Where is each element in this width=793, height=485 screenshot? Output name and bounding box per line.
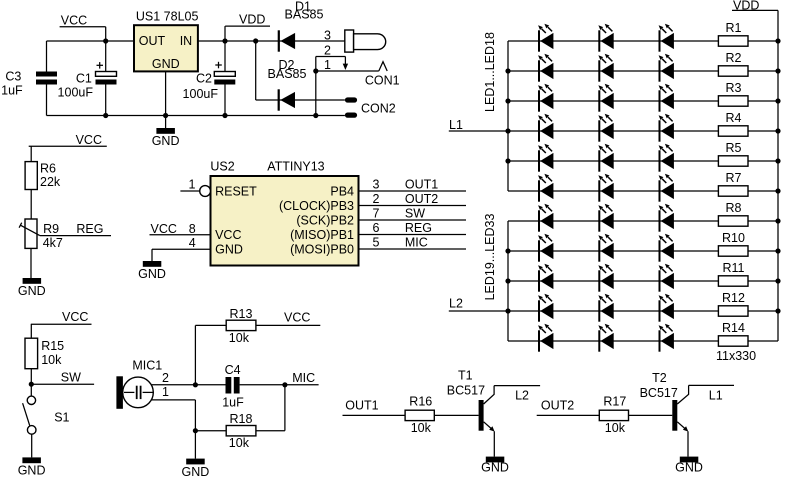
- svg-text:LED19...LED33: LED19...LED33: [483, 214, 497, 301]
- regulator US1 78L05: [134, 10, 198, 72]
- junction: [505, 308, 510, 313]
- svg-text:1: 1: [189, 178, 196, 192]
- capacitor C2 100uF: [183, 41, 236, 116]
- wire: [165, 71, 167, 115]
- resistor R1: [718, 21, 748, 46]
- LED: [659, 24, 674, 52]
- svg-text:2: 2: [162, 371, 169, 385]
- svg-text:VCC: VCC: [215, 228, 241, 242]
- svg-text:R17: R17: [603, 394, 626, 408]
- connector CON1: [316, 28, 400, 87]
- junction: [775, 98, 780, 103]
- pin 4 GND wire: [152, 236, 211, 261]
- svg-text:CON1: CON1: [365, 74, 400, 88]
- node VCC: [29, 133, 107, 162]
- resistor R3: [718, 81, 748, 106]
- svg-text:R15: R15: [41, 339, 64, 353]
- junction: [775, 278, 780, 283]
- svg-text:10k: 10k: [229, 331, 250, 345]
- ground: [18, 457, 46, 477]
- resistor R12: [718, 291, 748, 316]
- wire VDD bus: [748, 10, 778, 341]
- svg-text:REG: REG: [76, 222, 103, 236]
- resistor R6 22k: [25, 161, 61, 189]
- node MIC: [405, 235, 428, 249]
- node OUT1: [405, 177, 438, 191]
- pin number 5: [373, 235, 380, 249]
- diode D2 BAS85: [268, 58, 307, 111]
- svg-text:L1: L1: [449, 118, 463, 132]
- resistor R18 10k: [195, 412, 256, 450]
- wire L2 bus: [507, 221, 509, 341]
- LED: [598, 54, 613, 82]
- node OUT1: [343, 399, 406, 416]
- junction: [103, 113, 108, 118]
- resistor R13 10k: [226, 307, 256, 345]
- LED: [598, 204, 613, 232]
- junction: [282, 382, 287, 387]
- svg-text:11x330: 11x330: [716, 349, 756, 363]
- svg-text:MIC: MIC: [292, 371, 315, 385]
- wire GND rail: [47, 115, 345, 117]
- node OUT2: [537, 399, 600, 416]
- wire: [256, 41, 345, 100]
- wire LED row: [508, 100, 718, 102]
- LED: [659, 204, 674, 232]
- resistor R7: [718, 171, 748, 196]
- node VCC: [60, 13, 106, 41]
- svg-text:OUT2: OUT2: [405, 192, 438, 206]
- LED: [598, 264, 613, 292]
- svg-text:REG: REG: [405, 221, 432, 235]
- svg-text:MIC: MIC: [405, 235, 428, 249]
- svg-text:5: 5: [373, 235, 380, 249]
- svg-text:C3: C3: [5, 70, 21, 84]
- svg-text:GND: GND: [215, 243, 243, 257]
- svg-text:R14: R14: [722, 321, 745, 335]
- wire: [748, 40, 778, 42]
- LED: [659, 264, 674, 292]
- svg-text:R16: R16: [409, 394, 432, 408]
- LED: [538, 264, 553, 292]
- svg-text:2: 2: [373, 192, 380, 206]
- wire: [748, 160, 778, 162]
- svg-text:(CLOCK)PB3: (CLOCK)PB3: [279, 199, 354, 213]
- pin number 7: [373, 206, 380, 220]
- wire: [687, 431, 689, 456]
- LED: [659, 144, 674, 172]
- resistor R2: [718, 51, 748, 76]
- LED: [538, 204, 553, 232]
- svg-text:3: 3: [373, 177, 380, 191]
- node VDD: [732, 0, 778, 13]
- svg-text:SW: SW: [405, 206, 425, 220]
- resistor R5: [718, 141, 748, 166]
- pin 3 wire: [359, 190, 467, 192]
- diode D1 BAS85: [278, 0, 324, 52]
- LED: [598, 294, 613, 322]
- junction: [222, 113, 227, 118]
- wire LED row: [508, 220, 718, 222]
- svg-text:US1 78L05: US1 78L05: [136, 10, 199, 24]
- svg-text:(SCK)PB2: (SCK)PB2: [296, 214, 354, 228]
- node VDD: [225, 13, 270, 41]
- LED: [598, 24, 613, 52]
- resistor R8: [718, 201, 748, 226]
- wire: [748, 70, 778, 72]
- svg-text:L2: L2: [449, 297, 463, 311]
- svg-text:C1: C1: [76, 72, 92, 86]
- svg-text:PB4: PB4: [330, 185, 354, 199]
- node REG: [405, 221, 432, 235]
- wire: [256, 385, 285, 431]
- pin 7 wire: [359, 219, 467, 221]
- node L1: [709, 389, 723, 403]
- LED: [659, 234, 674, 262]
- wire: [315, 57, 317, 116]
- ground: [18, 278, 46, 298]
- wire: [151, 384, 225, 386]
- ground: [675, 457, 703, 475]
- capacitor C3 1uF: [1, 70, 57, 98]
- svg-text:(MOSI)PB0: (MOSI)PB0: [290, 243, 354, 257]
- LED: [598, 174, 613, 202]
- wire: [748, 310, 778, 312]
- LED: [659, 324, 674, 352]
- svg-text:T1: T1: [458, 369, 473, 383]
- wire: [748, 130, 778, 132]
- svg-text:R11: R11: [722, 261, 744, 275]
- svg-text:22k: 22k: [40, 175, 61, 189]
- junction: [775, 158, 780, 163]
- svg-text:1uF: 1uF: [1, 83, 23, 97]
- pin 6 wire: [359, 234, 467, 236]
- svg-text:R7: R7: [726, 171, 742, 185]
- svg-text:10k: 10k: [41, 353, 62, 367]
- svg-text:CON2: CON2: [361, 101, 396, 115]
- wire: [748, 100, 778, 102]
- svg-text:7: 7: [373, 206, 380, 220]
- node L1: [449, 118, 508, 132]
- svg-text:R8: R8: [726, 201, 742, 215]
- junction: [193, 382, 198, 387]
- junction: [775, 68, 780, 73]
- LED: [659, 114, 674, 142]
- svg-text:GND: GND: [481, 461, 509, 475]
- wire: [689, 384, 734, 386]
- LED: [538, 174, 553, 202]
- svg-text:R2: R2: [726, 51, 742, 65]
- junction: [29, 382, 34, 387]
- resistor R4: [718, 111, 748, 136]
- resistor R11: [718, 261, 748, 286]
- svg-text:2: 2: [324, 44, 331, 58]
- pin number 3: [373, 177, 380, 191]
- wire: [240, 384, 319, 386]
- svg-text:GND: GND: [182, 465, 210, 479]
- svg-text:BAS85: BAS85: [268, 67, 307, 81]
- wire: [493, 431, 495, 456]
- junction: [775, 38, 780, 43]
- wire: [46, 41, 48, 72]
- node SW: [31, 371, 94, 385]
- svg-text:GND: GND: [18, 464, 46, 478]
- node REG: [40, 222, 111, 236]
- wire LED row: [508, 190, 718, 192]
- LED: [538, 84, 553, 112]
- IC US2 ATTINY13: [210, 160, 358, 266]
- resistor R15 10k: [25, 338, 64, 369]
- label LED1...LED18: [483, 32, 497, 112]
- LED: [659, 174, 674, 202]
- wire LED row: [508, 340, 718, 342]
- wire LED row: [508, 70, 718, 72]
- resistor R17 10k: [599, 394, 628, 435]
- pin 5 wire: [359, 248, 467, 250]
- LED: [598, 234, 613, 262]
- node SW: [405, 206, 425, 220]
- svg-text:ATTINY13: ATTINY13: [267, 160, 324, 174]
- svg-text:3: 3: [324, 28, 331, 42]
- LED: [598, 84, 613, 112]
- svg-text:R4: R4: [726, 111, 742, 125]
- svg-text:R5: R5: [726, 141, 742, 155]
- node VCC: [31, 310, 92, 338]
- junction: [775, 308, 780, 313]
- junction: [775, 218, 780, 223]
- LED: [659, 54, 674, 82]
- label 11x330: [716, 349, 756, 363]
- junction: [505, 278, 510, 283]
- svg-text:(MISO)PB1: (MISO)PB1: [290, 228, 354, 242]
- junction: [505, 98, 510, 103]
- resistor R16 10k: [405, 394, 434, 435]
- svg-text:VCC: VCC: [284, 310, 310, 324]
- svg-text:L2: L2: [515, 389, 529, 403]
- svg-text:1: 1: [324, 58, 331, 72]
- ground: [182, 459, 210, 479]
- wire LED row: [508, 130, 718, 132]
- ground: [152, 116, 180, 149]
- capacitor C4 1uF: [222, 363, 244, 409]
- svg-text:GND: GND: [152, 57, 180, 71]
- svg-text:R13: R13: [230, 307, 253, 321]
- svg-text:L1: L1: [709, 389, 723, 403]
- junction: [253, 38, 258, 43]
- wire LED row: [508, 160, 718, 162]
- node L2: [449, 297, 508, 311]
- LED: [538, 54, 553, 82]
- svg-text:R3: R3: [726, 81, 742, 95]
- pin 2 wire: [359, 205, 467, 207]
- trimmer R9 4k7: [19, 219, 63, 250]
- svg-text:GND: GND: [18, 284, 46, 298]
- svg-text:10k: 10k: [605, 421, 626, 435]
- LED: [538, 144, 553, 172]
- svg-text:OUT1: OUT1: [405, 177, 438, 191]
- svg-text:VCC: VCC: [62, 310, 88, 324]
- svg-text:6: 6: [373, 221, 380, 235]
- svg-text:4: 4: [189, 236, 196, 250]
- wire: [151, 400, 195, 459]
- wire: [629, 414, 673, 416]
- junction: [505, 248, 510, 253]
- junction: [313, 113, 318, 118]
- svg-text:R12: R12: [722, 291, 745, 305]
- wire: [748, 280, 778, 282]
- LED: [538, 294, 553, 322]
- resistor R10: [718, 231, 748, 256]
- node OUT2: [405, 192, 438, 206]
- wire LED row: [508, 40, 718, 42]
- switch S1: [23, 384, 70, 457]
- ground: [481, 457, 509, 475]
- wire LED row: [508, 250, 718, 252]
- capacitor C1 100uF: [58, 62, 117, 99]
- ground: [138, 261, 166, 281]
- svg-text:C4: C4: [225, 363, 241, 377]
- wire: [46, 85, 48, 116]
- svg-text:4k7: 4k7: [43, 236, 63, 250]
- svg-text:100uF: 100uF: [58, 85, 94, 99]
- svg-text:US2: US2: [210, 160, 234, 174]
- label LED19...LED33: [483, 214, 497, 301]
- svg-text:RESET: RESET: [215, 185, 257, 199]
- LED: [598, 114, 613, 142]
- svg-text:R10: R10: [722, 231, 745, 245]
- node VCC: [150, 222, 211, 236]
- LED: [598, 144, 613, 172]
- junction: [313, 68, 318, 73]
- svg-text:OUT: OUT: [139, 34, 166, 48]
- microphone MIC1: [116, 358, 169, 409]
- LED: [598, 324, 613, 352]
- svg-text:VDD: VDD: [239, 13, 265, 27]
- wire LED row: [508, 280, 718, 282]
- wire: [748, 220, 778, 222]
- LED: [538, 324, 553, 352]
- svg-text:T2: T2: [652, 371, 667, 385]
- wire: [47, 40, 135, 42]
- junction: [103, 38, 108, 43]
- svg-text:BC517: BC517: [447, 384, 485, 398]
- junction: [505, 128, 510, 133]
- svg-text:R18: R18: [230, 412, 253, 426]
- svg-text:OUT1: OUT1: [345, 399, 378, 413]
- pin number 2: [373, 192, 380, 206]
- node L2: [515, 389, 529, 403]
- LED: [538, 234, 553, 262]
- svg-text:BC517: BC517: [640, 386, 678, 400]
- junction: [775, 248, 780, 253]
- wire: [434, 414, 478, 416]
- svg-text:10k: 10k: [229, 436, 250, 450]
- svg-text:10k: 10k: [411, 421, 432, 435]
- wire: [748, 250, 778, 252]
- wire LED row: [508, 310, 718, 312]
- svg-text:100uF: 100uF: [183, 87, 219, 101]
- svg-text:OUT2: OUT2: [541, 399, 574, 413]
- junction: [505, 68, 510, 73]
- wire: [748, 190, 778, 192]
- node VCC: [256, 310, 320, 325]
- wire: [30, 190, 32, 220]
- wire: [30, 369, 32, 385]
- svg-text:VCC: VCC: [76, 133, 102, 147]
- wire: [198, 40, 345, 42]
- svg-text:IN: IN: [180, 34, 193, 48]
- wire L1 bus: [507, 41, 509, 191]
- junction: [163, 113, 168, 118]
- svg-text:GND: GND: [152, 134, 180, 148]
- svg-text:LED1...LED18: LED1...LED18: [483, 32, 497, 112]
- LED: [659, 84, 674, 112]
- svg-text:VCC: VCC: [151, 222, 177, 236]
- junction: [505, 158, 510, 163]
- wire: [494, 385, 540, 387]
- resistor R14: [718, 321, 748, 346]
- svg-text:GND: GND: [675, 461, 703, 475]
- transistor T2 BC517: [640, 371, 689, 432]
- pin 1 RESET: [180, 178, 210, 197]
- node MIC: [292, 371, 315, 385]
- svg-text:MIC1: MIC1: [132, 358, 162, 372]
- svg-text:R9: R9: [43, 222, 59, 236]
- svg-text:R6: R6: [40, 161, 56, 175]
- svg-text:1uF: 1uF: [222, 395, 244, 409]
- connector CON2: [345, 97, 396, 117]
- junction: [775, 128, 780, 133]
- junction: [222, 38, 227, 43]
- svg-text:8: 8: [189, 222, 196, 236]
- svg-text:R1: R1: [726, 21, 742, 35]
- junction: [193, 428, 198, 433]
- svg-text:BAS85: BAS85: [285, 8, 324, 22]
- junction: [775, 188, 780, 193]
- LED: [538, 24, 553, 52]
- svg-text:S1: S1: [54, 410, 69, 424]
- svg-text:SW: SW: [61, 371, 81, 385]
- wire: [195, 325, 226, 384]
- transistor T1 BC517: [447, 369, 495, 432]
- wire: [105, 41, 107, 116]
- svg-text:GND: GND: [138, 267, 166, 281]
- svg-text:C2: C2: [196, 72, 212, 86]
- svg-text:VCC: VCC: [61, 13, 87, 27]
- svg-text:1: 1: [162, 385, 169, 399]
- wire: [30, 248, 32, 278]
- LED: [659, 294, 674, 322]
- LED: [538, 114, 553, 142]
- pin number 6: [373, 221, 380, 235]
